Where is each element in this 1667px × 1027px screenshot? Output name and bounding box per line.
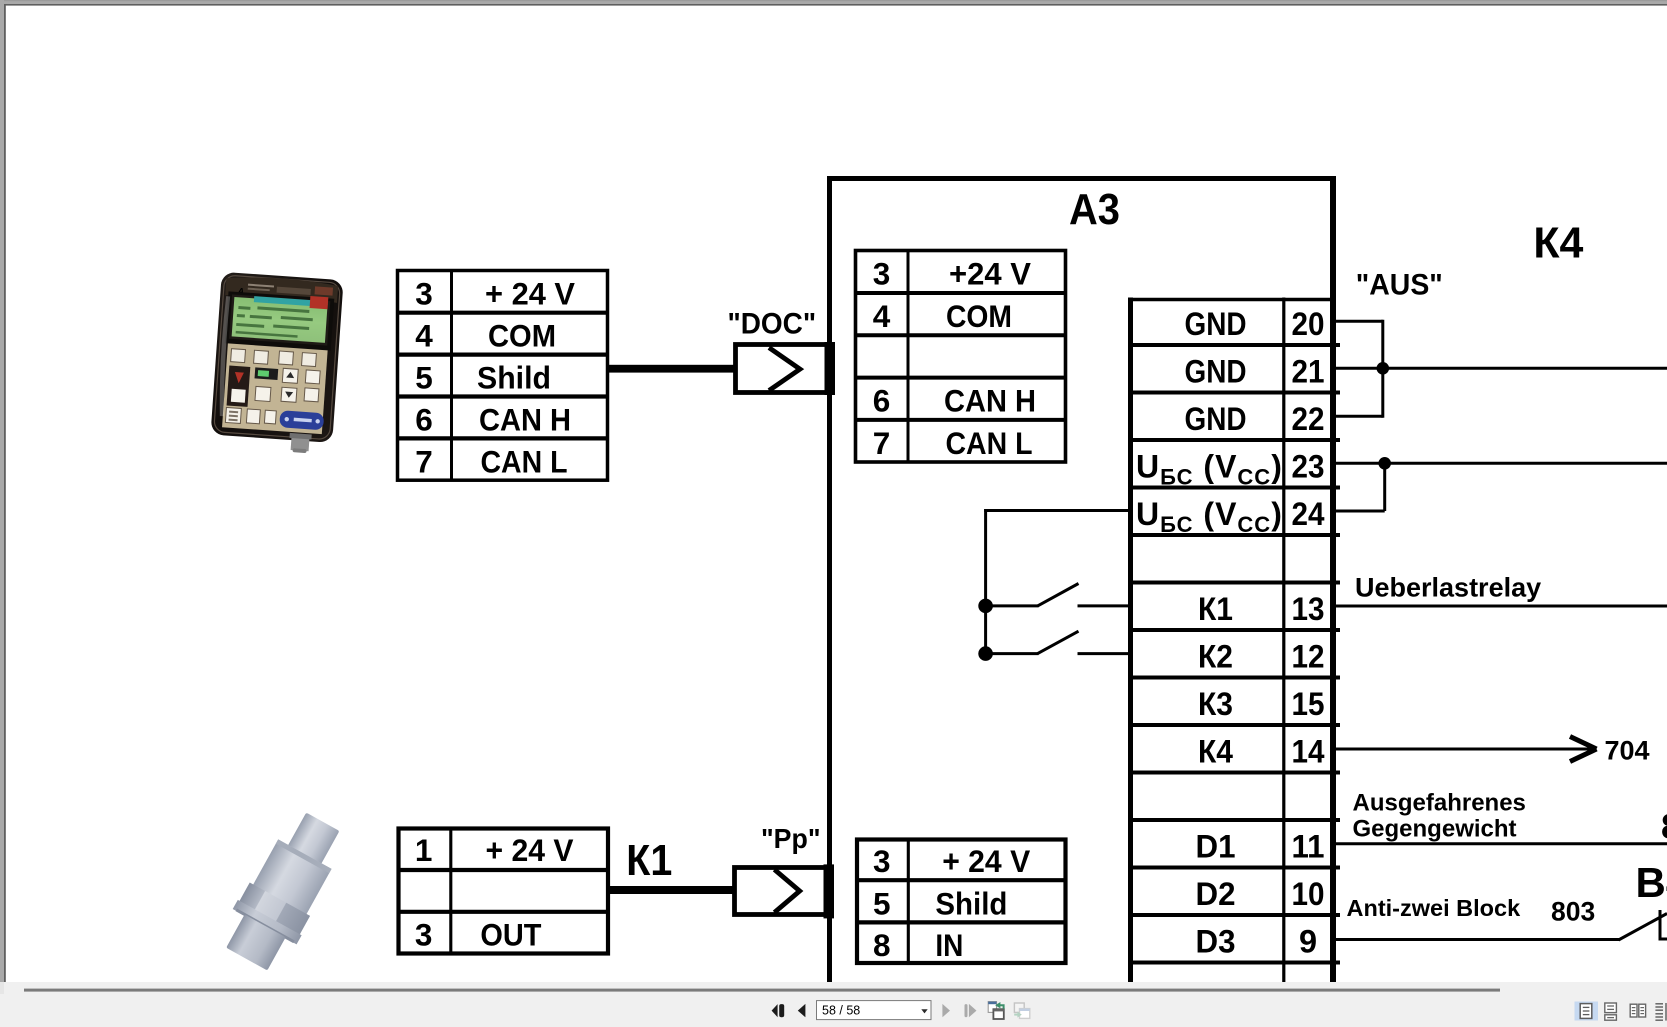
svg-text:11: 11 (1292, 829, 1325, 865)
svg-text:5: 5 (415, 360, 433, 396)
svg-text:9: 9 (1299, 924, 1317, 960)
svg-text:IN: IN (935, 927, 963, 963)
svg-text:COM: COM (946, 298, 1012, 334)
svg-text:3: 3 (415, 917, 433, 953)
svg-text:7: 7 (415, 444, 433, 480)
svg-text:+ 24 V: + 24 V (942, 843, 1030, 879)
svg-text:3: 3 (873, 843, 891, 879)
svg-text:"DOC": "DOC" (728, 308, 817, 341)
svg-text:Ausgefahrenes: Ausgefahrenes (1353, 790, 1526, 817)
svg-text:К2: К2 (1198, 639, 1233, 675)
svg-text:Ueberlastrelay: Ueberlastrelay (1355, 573, 1541, 603)
svg-text:CAN L: CAN L (946, 425, 1033, 461)
svg-text:B4: B4 (1636, 859, 1667, 906)
svg-text:CAN H: CAN H (479, 402, 571, 438)
svg-text:OUT: OUT (480, 917, 541, 953)
svg-text:К4: К4 (1198, 734, 1233, 770)
svg-text:COM: COM (488, 318, 556, 354)
svg-text:1: 1 (415, 832, 433, 868)
svg-text:14: 14 (1292, 734, 1325, 770)
svg-text:A3: A3 (1069, 186, 1120, 234)
svg-text:Shild: Shild (477, 360, 551, 396)
svg-text:Anti-zwei Block: Anti-zwei Block (1347, 895, 1522, 921)
svg-text:Shild: Shild (935, 885, 1007, 921)
svg-text:8: 8 (873, 927, 891, 963)
svg-text:D3: D3 (1196, 924, 1236, 960)
svg-text:20: 20 (1292, 306, 1325, 342)
svg-text:13: 13 (1292, 591, 1325, 627)
svg-text:3: 3 (415, 276, 433, 312)
svg-text:К1: К1 (1198, 591, 1233, 627)
svg-text:58 / 58: 58 / 58 (822, 1004, 860, 1018)
svg-text:23: 23 (1292, 449, 1325, 485)
svg-text:80: 80 (1661, 808, 1667, 847)
svg-text:К4: К4 (1533, 220, 1583, 268)
svg-text:7: 7 (873, 425, 891, 461)
svg-text:Gegengewicht: Gegengewicht (1353, 816, 1517, 843)
svg-text:К1: К1 (626, 837, 672, 885)
svg-text:22: 22 (1292, 401, 1325, 437)
svg-text:GND: GND (1185, 354, 1247, 390)
svg-text:4: 4 (415, 318, 433, 354)
svg-text:D1: D1 (1196, 829, 1236, 865)
svg-text:24: 24 (1292, 496, 1325, 532)
svg-text:+24 V: +24 V (949, 256, 1031, 292)
svg-text:15: 15 (1292, 686, 1325, 722)
svg-text:10: 10 (1292, 876, 1325, 912)
svg-text:GND: GND (1185, 306, 1247, 342)
svg-text:"Pp": "Pp" (761, 823, 821, 854)
svg-text:+ 24 V: + 24 V (485, 276, 575, 312)
svg-text:D2: D2 (1196, 876, 1236, 912)
svg-text:704: 704 (1605, 736, 1650, 766)
svg-text:3: 3 (873, 256, 891, 292)
svg-text:4: 4 (873, 298, 891, 334)
svg-text:CAN H: CAN H (944, 383, 1036, 419)
svg-text:+ 24 V: + 24 V (486, 832, 574, 868)
svg-text:803: 803 (1551, 897, 1595, 927)
svg-text:К3: К3 (1198, 686, 1233, 722)
svg-text:6: 6 (873, 383, 891, 419)
svg-text:GND: GND (1185, 401, 1247, 437)
svg-text:"AUS": "AUS" (1356, 269, 1443, 302)
svg-text:12: 12 (1292, 639, 1325, 675)
svg-text:21: 21 (1292, 354, 1325, 390)
svg-text:6: 6 (415, 402, 433, 438)
svg-text:5: 5 (873, 885, 891, 921)
svg-text:CAN L: CAN L (481, 444, 568, 480)
